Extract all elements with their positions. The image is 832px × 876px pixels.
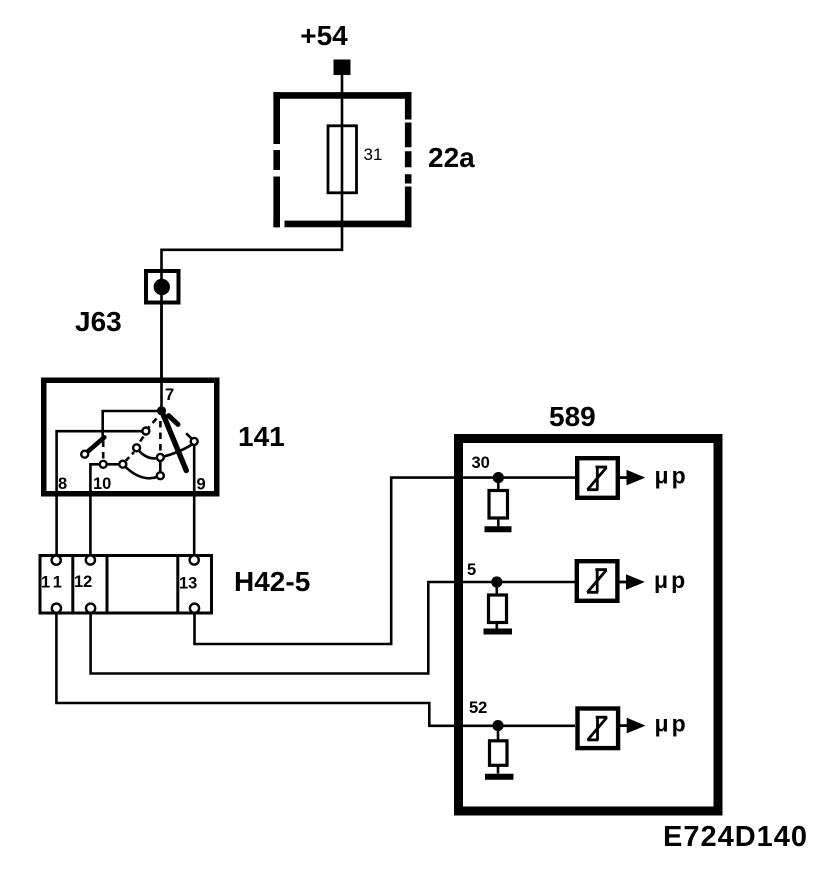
wire pin10 branch bbox=[90, 464, 99, 555]
contact circle C2 (10) bbox=[100, 461, 107, 468]
wire pin7 into switch bbox=[160, 378, 163, 411]
svg-text:9: 9 bbox=[197, 476, 206, 494]
wire C2-C3 link bbox=[107, 463, 118, 466]
svg-text:E724D140: E724D140 bbox=[663, 821, 808, 853]
svg-text:7: 7 bbox=[165, 386, 174, 404]
resistor ch5 bbox=[495, 582, 498, 595]
arrow to microprocessor ch5 bbox=[616, 581, 626, 584]
arrow to microprocessor ch30 bbox=[617, 476, 627, 479]
svg-text:5: 5 bbox=[467, 561, 476, 579]
switch box 141 bbox=[44, 380, 217, 494]
fuse holder box 22a (dashed border) bbox=[273, 92, 411, 227]
fan arc (outer contacts) bbox=[137, 444, 194, 459]
dashed radial pivot to C5 to C4 bbox=[138, 419, 156, 445]
wire through J63 bbox=[160, 271, 163, 382]
wire pin12 to channel 5 bbox=[91, 582, 575, 674]
dashed lever2 to C2 bbox=[102, 441, 105, 461]
junction dot ch30 bbox=[493, 472, 504, 483]
threshold box ch5 bbox=[577, 561, 618, 601]
svg-text:8: 8 bbox=[58, 475, 67, 493]
contact circle C3 bbox=[119, 461, 126, 468]
svg-text:141: 141 bbox=[238, 421, 285, 452]
divider 3 bbox=[176, 556, 179, 614]
radial lead to contact 9 bbox=[186, 433, 192, 439]
ground ch5 bbox=[484, 629, 513, 635]
svg-text:22a: 22a bbox=[428, 142, 475, 173]
pin circles bottom row bbox=[52, 604, 61, 613]
wire from +54 terminal down through fuse to J63 bbox=[162, 75, 343, 383]
arrow to microprocessor ch52 bbox=[617, 724, 627, 727]
wire pivot to left branch bbox=[103, 411, 162, 438]
dashed C3 to C4 bbox=[126, 452, 134, 461]
junction dot ch5 bbox=[491, 576, 502, 587]
divider 2 bbox=[106, 556, 109, 614]
wire pin11 to channel 52 bbox=[56, 613, 575, 726]
connector H42-5 body bbox=[40, 556, 212, 614]
svg-text:H42-5: H42-5 bbox=[234, 566, 310, 597]
lower arc bbox=[124, 466, 159, 479]
connector J63 square bbox=[146, 271, 179, 303]
terminal square (+54 feed) bbox=[334, 60, 351, 76]
svg-text:J63: J63 bbox=[75, 306, 122, 337]
svg-text:10: 10 bbox=[93, 475, 111, 493]
wiper arrow barb bbox=[169, 416, 178, 425]
wire pin8 branch bbox=[57, 431, 142, 555]
svg-text:μp: μp bbox=[655, 711, 689, 737]
wire pin9 branch bbox=[193, 446, 196, 556]
ECU box 589 bbox=[459, 439, 719, 812]
ground ch52 bbox=[485, 774, 514, 780]
contact circle C6 bbox=[157, 454, 164, 461]
svg-text:11: 11 bbox=[41, 574, 65, 592]
svg-text:μp: μp bbox=[654, 567, 688, 593]
contact circle C5 (8) bbox=[142, 428, 149, 435]
contact circle C8 (9) bbox=[191, 438, 198, 445]
svg-text:52: 52 bbox=[469, 699, 487, 717]
contact circle C1 bbox=[81, 451, 88, 458]
resistor ch30 bbox=[497, 478, 500, 491]
contact circle C4 bbox=[133, 444, 140, 451]
pin circles top row bbox=[52, 556, 61, 565]
fuse 31 element bbox=[328, 126, 357, 193]
contact circle C7 bbox=[157, 472, 164, 479]
junction dot ch52 bbox=[492, 720, 503, 731]
J63 contact dot bbox=[154, 279, 170, 295]
svg-text:μp: μp bbox=[655, 463, 689, 489]
svg-text:31: 31 bbox=[364, 145, 383, 164]
link C6 to C7 bbox=[159, 462, 162, 472]
svg-text:589: 589 bbox=[549, 401, 596, 432]
divider 1 bbox=[71, 556, 74, 614]
left lever (second wiper) bbox=[87, 437, 104, 452]
svg-text:13: 13 bbox=[179, 575, 197, 593]
resistor ch52 bbox=[497, 726, 500, 741]
wire pin13 to channel 30 bbox=[195, 478, 576, 644]
threshold box ch30 bbox=[577, 458, 618, 498]
svg-text:+54: +54 bbox=[300, 20, 348, 51]
pivot blob bbox=[157, 406, 166, 415]
switch lever (main wiper) bbox=[162, 411, 187, 471]
threshold box ch52 bbox=[578, 709, 619, 749]
svg-text:12: 12 bbox=[74, 573, 92, 591]
dashed vertical pivot to C6 bbox=[159, 421, 162, 454]
ground ch30 bbox=[485, 526, 512, 532]
svg-text:30: 30 bbox=[472, 454, 490, 472]
